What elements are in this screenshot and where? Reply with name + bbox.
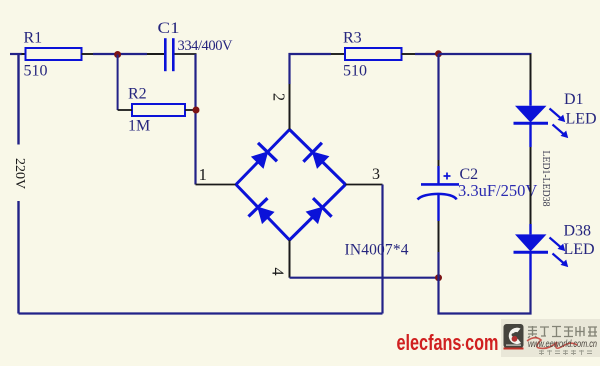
svg-text:1M: 1M bbox=[128, 118, 150, 135]
svg-text:4: 4 bbox=[269, 267, 288, 275]
wire: top rail node2 corner to R3 bbox=[289, 53, 332, 55]
LED D38 bbox=[514, 224, 569, 280]
svg-text:R3: R3 bbox=[343, 30, 362, 47]
wire: node 3 vertical down to bottom return rail bbox=[381, 185, 383, 314]
svg-text:510: 510 bbox=[343, 63, 367, 80]
svg-text:LED: LED bbox=[566, 111, 597, 128]
watermark eeworld box bbox=[501, 319, 600, 357]
svg-text:510: 510 bbox=[24, 63, 48, 80]
wire: vertical from C1 corner down to node 1 bbox=[194, 54, 196, 185]
wire: R2 left lead bbox=[118, 109, 132, 111]
svg-text:D38: D38 bbox=[564, 223, 592, 240]
svg-text:elecfans·com: elecfans·com bbox=[397, 330, 499, 355]
wire: R3 right lead to junction C bbox=[402, 53, 416, 55]
wire: LED branch top lead bbox=[530, 54, 532, 90]
svg-text:220V: 220V bbox=[12, 158, 27, 189]
wire: LED return U (junction D down, right, up to D38) bbox=[439, 278, 531, 314]
wire: node 3 horizontal from bridge right vertex bbox=[346, 184, 383, 186]
wire: LED string middle segment bbox=[530, 147, 532, 224]
junction dot B (R2 / C1 branch) bbox=[193, 107, 200, 114]
junction dot C (R3 / C2 / LED branch) bbox=[435, 50, 442, 57]
svg-text:1: 1 bbox=[199, 165, 208, 184]
wire: node 4 rail to junction D bbox=[290, 277, 439, 279]
wire: bottom return rail (AC neutral to node 3) bbox=[19, 312, 383, 314]
junction dot A (R1 / C1 / R2 branch) bbox=[114, 51, 121, 58]
bridge diamond edges (diode leads) bbox=[236, 130, 346, 241]
wire: C1 right plate to corner bbox=[175, 53, 197, 55]
wire: node 4 vertical from bridge bottom vertex bbox=[289, 240, 291, 278]
resistor R2 bbox=[132, 104, 185, 116]
wire: node 2 vertical up to top rail bbox=[288, 53, 290, 84]
wire: top rail junction C to LED branch corner bbox=[439, 53, 532, 55]
wire: top rail left (AC live to R1) bbox=[10, 53, 22, 55]
watermark red script overlay bbox=[527, 338, 577, 349]
svg-text:3.3uF/250V: 3.3uF/250V bbox=[458, 181, 537, 200]
wire: node 1 horizontal into bridge left vertex bbox=[196, 184, 237, 186]
svg-text:IN4007*4: IN4007*4 bbox=[345, 242, 409, 259]
bridge diode D-top-left (anode node1, cathode node2) bbox=[251, 143, 277, 169]
junction dot D (C2 / node4 rail / LED return) bbox=[435, 274, 442, 281]
wire: left AC vertical lower segment bbox=[17, 201, 19, 314]
capacitor C2 (polarized) bbox=[418, 166, 460, 221]
svg-text:LED1-LED38: LED1-LED38 bbox=[540, 151, 551, 207]
svg-text:D1: D1 bbox=[564, 91, 584, 108]
bridge diode D-top-right (anode node3, cathode node2) bbox=[303, 143, 329, 169]
LED D1 bbox=[514, 90, 569, 147]
svg-text:3: 3 bbox=[372, 166, 380, 183]
svg-text:R1: R1 bbox=[24, 30, 43, 47]
wire: junction A down to R2 bbox=[117, 55, 119, 111]
svg-text:2: 2 bbox=[270, 93, 289, 101]
watermark Chinese title 电子工程世界 (simulated glyphs) bbox=[528, 326, 597, 338]
resistor R1 bbox=[26, 48, 82, 60]
svg-text:C1: C1 bbox=[158, 20, 180, 37]
svg-text:LED: LED bbox=[564, 241, 595, 258]
watermark small slogan row bbox=[539, 350, 592, 355]
wire: R2 right lead bbox=[185, 109, 196, 111]
wire: C2 bottom lead down to junction D bbox=[438, 221, 440, 252]
resistor R3 bbox=[345, 48, 402, 60]
svg-text:www.eeworld.com.cn: www.eeworld.com.cn bbox=[528, 338, 597, 350]
bridge diode D-bottom-left (anode node4, cathode node1) bbox=[249, 198, 275, 224]
capacitor C1 bbox=[165, 38, 173, 71]
wire: C2 top lead from junction C bbox=[437, 54, 439, 160]
bridge diode D-bottom-right (anode node4, cathode node3) bbox=[306, 198, 332, 224]
svg-text:R2: R2 bbox=[128, 86, 147, 103]
svg-text:334/400V: 334/400V bbox=[178, 38, 234, 54]
wire: left AC vertical upper segment bbox=[17, 54, 19, 145]
wire: R1 right lead to junction bbox=[82, 53, 94, 55]
